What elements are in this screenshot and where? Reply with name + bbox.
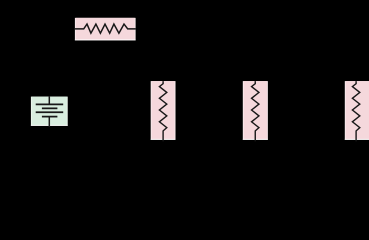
wire rise from bottom rail to R2 bottom (162, 131, 164, 162)
wire top rail from R1 right lead to node over R4 (128, 28, 357, 30)
battery V1 (31, 97, 68, 127)
wire drop from top rail to R3 top (254, 29, 256, 84)
resistor R1 (horizontal, top) (75, 18, 136, 41)
wire drop from top rail to R4 top (355, 29, 357, 84)
resistor R4 (vertical, right, clipped at image edge) (345, 81, 369, 141)
resistor R3 (vertical, middle) (243, 81, 268, 141)
wire rise from bottom rail to R3 bottom (254, 131, 256, 162)
resistor R2 (vertical, left) (151, 81, 176, 141)
wire top rail from battery V1 to resistor R1 left lead (49, 29, 83, 97)
wire rise from bottom rail to R4 bottom (355, 131, 357, 162)
wire drop from top rail to R2 top (162, 29, 164, 84)
wire bottom rail from battery V1 to resistor bottoms (49, 126, 356, 162)
